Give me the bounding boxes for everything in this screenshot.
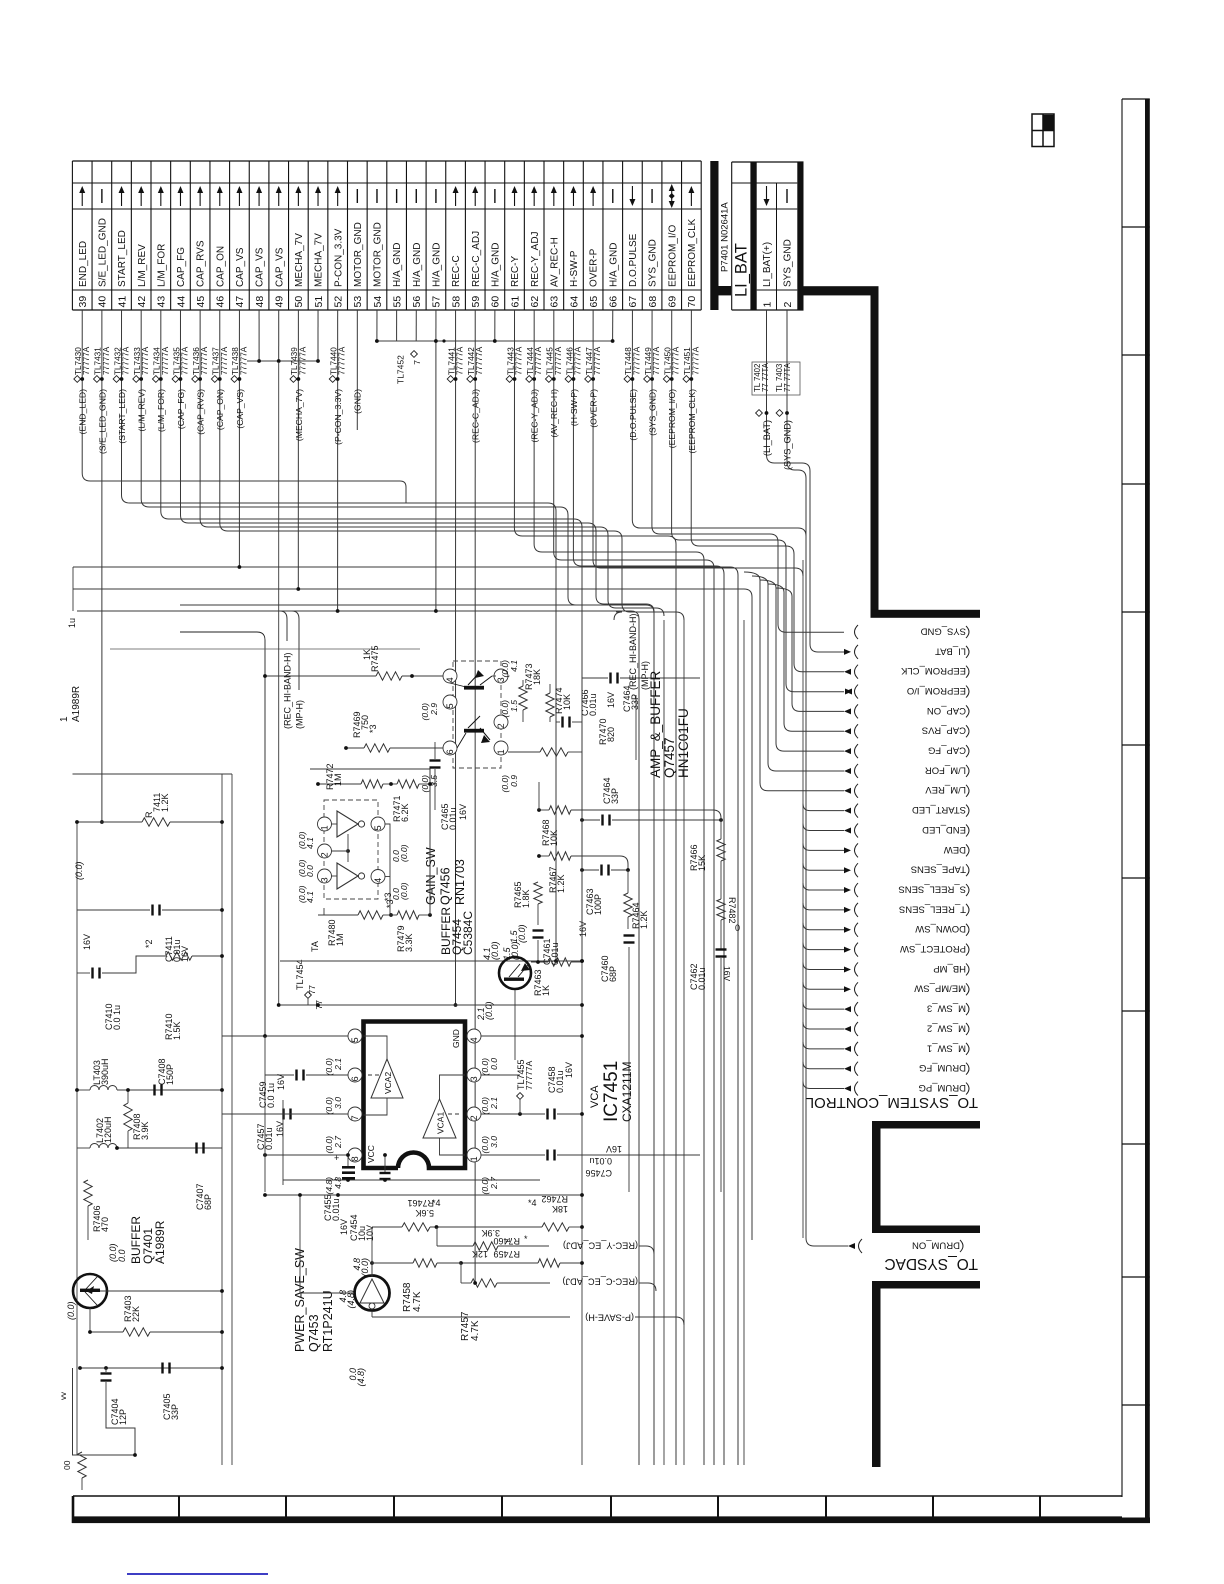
svg-text:120uH: 120uH: [103, 1116, 113, 1143]
op-amp IC7451 body: [364, 1022, 466, 1169]
pin 69 EEPROM_I/O: [667, 184, 679, 308]
svg-text:16V: 16V: [82, 934, 92, 950]
svg-text:7: 7: [350, 1115, 360, 1120]
net EEPROM_CLK (to system control): [844, 665, 969, 679]
net SYS_GND (to system control): [855, 625, 970, 639]
svg-text:L/M_FOR: L/M_FOR: [925, 764, 966, 775]
svg-text:0.0: 0.0: [305, 865, 315, 877]
net T_REEL_SENS (to system control): [803, 903, 969, 917]
svg-text:(SYS_GND): (SYS_GND): [783, 420, 793, 470]
wire H/A_GND pin 57: [435, 310, 437, 611]
svg-text:(MP-H): (MP-H): [640, 661, 650, 690]
wire S/E_LED_GND pin 40: [93, 310, 110, 822]
svg-text:EEPROM_I/O: EEPROM_I/O: [907, 685, 966, 696]
svg-text:51: 51: [313, 296, 325, 308]
pin 47 CAP_VS: [234, 186, 246, 308]
svg-text:(AV_REC-H): (AV_REC-H): [549, 389, 559, 438]
net START_LED (to system control): [803, 804, 969, 818]
capacitor C7411 0.01u 16V: [77, 905, 224, 963]
wire H/A_GND pin 56: [415, 310, 417, 341]
svg-text:50: 50: [293, 296, 305, 308]
svg-text:65: 65: [588, 296, 600, 308]
svg-text:1: 1: [496, 749, 506, 754]
svg-text:2.1: 2.1: [333, 1058, 343, 1071]
wire SYS_GND pin 2: [776, 310, 806, 536]
svg-text:69: 69: [667, 296, 679, 308]
gate block Q7456 dashed outline: [324, 800, 378, 899]
svg-text:(MECHA_7V): (MECHA_7V): [294, 389, 304, 441]
svg-text:68: 68: [647, 296, 659, 308]
svg-text:77777A: 77777A: [161, 346, 170, 375]
svg-text:77777A: 77777A: [691, 346, 700, 375]
resistor R7460 3.9K (mirrored): [437, 1227, 549, 1250]
svg-text:Q7456: Q7456: [439, 867, 453, 905]
svg-text:(L/M_FOR): (L/M_FOR): [156, 389, 166, 432]
wire MECHA_7V pin 51: [317, 310, 319, 361]
capacitor C7465 0.01u 16V: [430, 742, 469, 830]
resistor R7403 22K: [66, 1295, 224, 1336]
svg-text:C5384C: C5384C: [461, 911, 475, 955]
net DOWN_SW (to system control): [803, 923, 969, 937]
svg-text:P-CON_3.3V: P-CON_3.3V: [333, 228, 344, 287]
pin 58 REC-C: [450, 186, 462, 308]
svg-text:1.2K: 1.2K: [160, 793, 170, 812]
svg-text:M_SW_2: M_SW_2: [927, 1022, 966, 1033]
capacitor C7461 0.01u: [533, 929, 561, 965]
svg-text:47: 47: [234, 296, 246, 308]
capacitor C7459 0.01u 16V: [222, 1034, 348, 1192]
svg-text:CXA1211M: CXA1211M: [620, 1062, 634, 1122]
svg-text:A1989R: A1989R: [71, 686, 82, 722]
svg-text:0: 0: [735, 923, 740, 933]
svg-text:R7459: R7459: [493, 1249, 520, 1259]
svg-text:(0.0): (0.0): [360, 1258, 370, 1277]
svg-text:TAPE_SENS: TAPE_SENS: [911, 864, 966, 875]
wire CAP_VS pin 48: [258, 310, 260, 362]
svg-text:L/M_REV: L/M_REV: [137, 244, 148, 287]
svg-text:(P-SAVE-H): (P-SAVE-H): [585, 1313, 634, 1323]
svg-text:END_LED: END_LED: [922, 824, 966, 835]
pin 51 MECHA_7V: [313, 186, 325, 308]
svg-text:57: 57: [431, 296, 443, 308]
transistor Q7457:B: [420, 660, 519, 793]
svg-text:4.1: 4.1: [305, 891, 315, 903]
svg-text:77777A: 77777A: [180, 346, 189, 375]
svg-text:(LI_BAT): (LI_BAT): [762, 420, 772, 456]
svg-text:TL7452: TL7452: [396, 355, 406, 384]
svg-text:77777A: 77777A: [475, 346, 484, 375]
svg-text:L/M_REV: L/M_REV: [925, 784, 966, 795]
svg-text:49: 49: [274, 296, 286, 308]
net (P-SAVE-H): [372, 1313, 684, 1325]
svg-text:390uH: 390uH: [100, 1058, 110, 1085]
svg-text:39: 39: [77, 296, 89, 308]
svg-text:3.9K: 3.9K: [140, 1121, 150, 1140]
wire END_LED pin 39: [74, 310, 406, 503]
svg-text:(0.0): (0.0): [490, 941, 500, 960]
wire START_LED pin 41: [113, 310, 556, 961]
svg-text:10K: 10K: [549, 830, 559, 846]
svg-text:41: 41: [116, 296, 128, 308]
svg-text:DRUM_FG: DRUM_FG: [919, 1062, 966, 1073]
pin 70 EEPROM_CLK: [686, 186, 698, 308]
pin 43 L/M_FOR: [156, 186, 168, 308]
hyperlink underline (blue): [127, 1573, 268, 1575]
svg-text:(REC_HI-BAND-H): (REC_HI-BAND-H): [628, 613, 638, 690]
wire left rail: [73, 774, 233, 1465]
capacitor C7410 0.01u: [77, 934, 166, 1030]
svg-text:GAIN_SW: GAIN_SW: [424, 847, 438, 905]
capacitor C7405 33P: [161, 1363, 180, 1421]
op-amp VCA2 (IC7451): [364, 1036, 404, 1115]
pin 54 MOTOR_GND: [372, 189, 384, 308]
inverter U:A (Q7456): [297, 811, 390, 915]
resistor R7458 4.7K: [372, 1259, 461, 1312]
svg-text:L/M_FOR: L/M_FOR: [156, 244, 167, 287]
svg-text:*2: *2: [144, 939, 154, 948]
pin 2 IC7451: [467, 1107, 545, 1153]
svg-text:REC-Y: REC-Y: [510, 256, 521, 287]
wire VCC rail y1185: [283, 1100, 540, 1185]
svg-text:H-SW-P: H-SW-P: [569, 250, 580, 287]
svg-text:6: 6: [445, 749, 455, 754]
svg-text:2: 2: [496, 723, 506, 728]
svg-text:77777A: 77777A: [573, 346, 582, 375]
svg-text:0.01u: 0.01u: [264, 1127, 274, 1150]
sheet marker icon (checkered): [1032, 114, 1054, 147]
pin 53 MOTOR_GND: [352, 189, 364, 308]
svg-text:(REC_HI-BAND-H): (REC_HI-BAND-H): [283, 652, 293, 729]
svg-text:MOTOR_GND: MOTOR_GND: [353, 222, 364, 287]
connector title LI_BAT: [733, 243, 751, 297]
svg-text:33P: 33P: [170, 1404, 180, 1420]
svg-text:R7462: R7462: [541, 1194, 568, 1204]
svg-text:1u: 1u: [67, 618, 77, 628]
svg-text:77777A: 77777A: [652, 346, 661, 375]
wire CAP_VS pin 49: [278, 310, 280, 362]
svg-text:2.7: 2.7: [489, 1177, 499, 1190]
svg-text:77777A: 77777A: [456, 346, 465, 375]
svg-text:SYS_GND: SYS_GND: [648, 239, 659, 287]
capacitor C7463 100P: [580, 865, 630, 916]
net (REC-C_EC_ADJ): [473, 1277, 656, 1291]
svg-text:ME/MP_SW: ME/MP_SW: [914, 983, 966, 994]
svg-text:TL7454: TL7454: [295, 959, 305, 990]
pin 56 H/A_GND: [411, 189, 423, 308]
junction H/A_GND tie line pins 54-66: [375, 339, 614, 384]
pin 49 CAP_VS: [274, 186, 286, 308]
svg-text:OVER-P: OVER-P: [589, 248, 600, 287]
pin 1 LI_BAT(+): [761, 186, 773, 308]
wire rail y961: [280, 959, 584, 963]
svg-text:62: 62: [529, 296, 541, 308]
svg-text:(REC-Y_EC_ADJ): (REC-Y_EC_ADJ): [563, 1241, 638, 1251]
svg-text:IC7451: IC7451: [601, 1061, 622, 1122]
svg-text:D.O.PULSE: D.O.PULSE: [628, 233, 639, 287]
svg-text:4: 4: [469, 1037, 479, 1042]
svg-text:(MP-H): (MP-H): [295, 700, 305, 729]
pin 59 REC-C_ADJ: [470, 186, 482, 308]
svg-text:1: 1: [761, 302, 773, 308]
wire long vertical x582: [580, 620, 584, 1465]
net DRUM_PG (to system control): [803, 1082, 969, 1096]
svg-text:1.5K: 1.5K: [172, 1021, 182, 1040]
resistor R7472 1M: [316, 763, 383, 790]
svg-text:77777A: 77777A: [82, 346, 91, 375]
inductor LT403 390uH: [75, 1058, 224, 1091]
test point TL7455: [516, 1059, 534, 1114]
svg-text:46: 46: [215, 296, 227, 308]
transistor Q7453: [298, 1193, 389, 1386]
svg-text:77777A: 77777A: [141, 346, 150, 375]
svg-text:77777A: 77777A: [534, 346, 543, 375]
svg-text:(L/M_REV): (L/M_REV): [137, 389, 147, 432]
net LI_BAT (to system control): [844, 645, 969, 659]
svg-text:77777A: 77777A: [102, 346, 111, 375]
svg-text:(REC-Y_ADJ): (REC-Y_ADJ): [530, 389, 540, 443]
svg-text:R7461: R7461: [407, 1198, 434, 1208]
svg-text:A1989R: A1989R: [153, 1220, 167, 1264]
svg-text:54: 54: [372, 296, 384, 308]
net M_SW_2 (to system control): [803, 1022, 969, 1036]
svg-text:1K: 1K: [541, 985, 551, 996]
svg-text:77 77TA: 77 77TA: [761, 362, 770, 392]
wire MOTOR_GND pin 53: [353, 310, 363, 430]
svg-text:(0.0): (0.0): [74, 861, 84, 880]
svg-text:63: 63: [549, 296, 561, 308]
svg-text:Q7453: Q7453: [307, 1314, 321, 1352]
svg-text:77777A: 77777A: [632, 346, 641, 375]
pin 7 IC7451: [300, 1107, 362, 1153]
resistor R7411 1.2K: [74, 793, 224, 880]
wire rail y1192: [263, 1193, 584, 1197]
svg-text:DOWN_SW: DOWN_SW: [915, 923, 966, 934]
svg-text:(4.8): (4.8): [356, 1368, 366, 1387]
svg-text:12K: 12K: [472, 1249, 488, 1259]
net M_SW_3 (to system control): [803, 1002, 969, 1016]
svg-text:16V: 16V: [339, 1219, 349, 1235]
svg-text:77777A: 77777A: [122, 346, 131, 375]
net (REC-Y_EC_ADJ): [563, 1241, 654, 1254]
svg-text:MECHA_7V: MECHA_7V: [314, 233, 325, 287]
svg-text:4: 4: [373, 878, 383, 883]
svg-text:TO_SYSDAC: TO_SYSDAC: [884, 1255, 978, 1272]
svg-text:16V: 16V: [276, 1074, 286, 1090]
pin 41 START_LED: [116, 186, 128, 308]
svg-text:3.0: 3.0: [489, 1136, 499, 1148]
svg-text:CAP_FG: CAP_FG: [176, 247, 187, 287]
svg-text:0.01u: 0.01u: [448, 807, 458, 830]
svg-text:REC-Y_ADJ: REC-Y_ADJ: [530, 231, 541, 287]
net L/M_FOR (to system control): [752, 576, 969, 778]
svg-text:(0.0): (0.0): [399, 882, 409, 900]
svg-text:MECHA_7V: MECHA_7V: [294, 233, 305, 287]
label PWER_SAVE_SW Q7453 RT1P241U: [293, 1248, 335, 1352]
svg-text:GND: GND: [451, 1029, 461, 1048]
svg-text:1: 1: [59, 716, 70, 722]
svg-text:(CAP_FG): (CAP_FG): [176, 389, 186, 429]
svg-text:CAP_VS: CAP_VS: [235, 247, 246, 287]
net END_LED (to system control): [803, 824, 969, 838]
svg-text:59: 59: [470, 296, 482, 308]
svg-text:2.7: 2.7: [333, 1136, 343, 1149]
label A1989R (partial): [59, 618, 82, 722]
svg-text:HN1C01FU: HN1C01FU: [676, 708, 691, 778]
net CAP_FG (to system control): [760, 580, 969, 758]
svg-text:START_LED: START_LED: [912, 804, 966, 815]
net DEW (to system control): [803, 843, 969, 857]
svg-text:SYS_GND: SYS_GND: [920, 625, 966, 636]
inverter U:C (Q7456): [297, 863, 390, 903]
wire REC-C pin 58: [447, 310, 464, 1005]
svg-text:77777A: 77777A: [200, 346, 209, 375]
svg-text:33P: 33P: [610, 788, 620, 804]
svg-text:*4: *4: [432, 1198, 441, 1208]
net (REC_HI-BAND-H) left instance: [280, 611, 305, 729]
svg-text:3: 3: [320, 877, 330, 882]
net (REC_HI-BAND-H) (MP-H): [628, 613, 650, 760]
svg-text:1.2K: 1.2K: [556, 874, 566, 893]
wire REC-Y pin 61: [506, 310, 676, 1465]
svg-text:470: 470: [100, 1217, 110, 1232]
svg-text:77777A: 77777A: [672, 346, 681, 375]
svg-text:1: 1: [469, 1156, 479, 1161]
resistor R7469 750: [344, 711, 443, 752]
svg-text:8: 8: [350, 1156, 360, 1161]
pin 65 OVER-P: [588, 186, 600, 308]
svg-text:40: 40: [97, 296, 109, 308]
svg-text:LI_BAT: LI_BAT: [935, 645, 966, 656]
svg-text:10K: 10K: [562, 694, 572, 710]
svg-text:(EEPROM_I/O): (EEPROM_I/O): [667, 389, 677, 448]
label BUFFER Q7454 C5384C: [439, 907, 520, 1021]
svg-text:VCC: VCC: [366, 1145, 376, 1163]
capacitor C7456 0.01u: [546, 1144, 700, 1178]
svg-text:R7482: R7482: [727, 897, 737, 924]
svg-text:(END_LED): (END_LED): [78, 389, 88, 435]
svg-text:4.7K: 4.7K: [470, 1320, 481, 1341]
pin 3 IC7451: [467, 1068, 520, 1114]
svg-text:00: 00: [62, 1460, 72, 1470]
svg-text:M_SW_1: M_SW_1: [927, 1042, 966, 1053]
svg-text:*3: *3: [385, 899, 395, 908]
svg-text:48: 48: [254, 296, 266, 308]
capacitor C7458 0.01u 16V: [546, 1062, 584, 1120]
svg-text:16V: 16V: [275, 1121, 285, 1137]
svg-text:77777A: 77777A: [220, 346, 229, 375]
label TO_SYSTEM_CONTROL: [806, 1094, 978, 1111]
pin 5 IC7451: [324, 1029, 362, 1075]
wire P-CON_3.3V pin 52: [329, 310, 346, 611]
svg-text:1M: 1M: [333, 773, 343, 786]
label VCA IC7451 CXA1211M: [589, 1061, 634, 1122]
svg-text:H/A_GND: H/A_GND: [432, 243, 443, 287]
svg-text:0.01u: 0.01u: [589, 1156, 612, 1166]
svg-text:100P: 100P: [593, 894, 603, 915]
svg-text:(GND): (GND): [353, 389, 363, 414]
svg-text:77777A: 77777A: [524, 1060, 534, 1090]
svg-text:18K: 18K: [552, 1204, 568, 1214]
svg-text:15K: 15K: [697, 855, 707, 871]
svg-text:(P-CON_3.3V): (P-CON_3.3V): [333, 389, 343, 445]
connector P7401 body bar: [710, 161, 731, 310]
svg-text:18K: 18K: [532, 669, 542, 685]
resistor R7463 1K: [531, 958, 582, 996]
transistor Q7401 BUFFER A1989R: [73, 1216, 224, 1308]
svg-text:12P: 12P: [118, 1409, 128, 1425]
svg-text:60: 60: [490, 296, 502, 308]
wire EEPROM_I/O pin 69: [663, 310, 844, 692]
svg-text:0.01u: 0.01u: [697, 967, 707, 990]
pin 62 REC-Y_ADJ: [529, 186, 541, 308]
wire REC-Y_ADJ pin 62: [526, 310, 704, 1465]
svg-text:5: 5: [373, 825, 383, 830]
svg-text:0.01u: 0.01u: [588, 693, 598, 716]
svg-text:RT1P241U: RT1P241U: [321, 1290, 335, 1352]
svg-text:END_LED: END_LED: [78, 241, 89, 287]
pin 66 H/A_GND: [608, 189, 620, 308]
svg-text:Q7457: Q7457: [662, 737, 677, 778]
svg-text:16V: 16V: [458, 804, 468, 820]
svg-text:HB_MP: HB_MP: [933, 963, 966, 974]
svg-text:45: 45: [195, 296, 207, 308]
svg-text:(0.0): (0.0): [484, 1001, 494, 1020]
svg-text:4.1: 4.1: [509, 660, 519, 672]
capacitor C7464 33P: [582, 673, 700, 713]
svg-text:(S/E_LED_GND): (S/E_LED_GND): [97, 389, 107, 454]
svg-text:55: 55: [391, 296, 403, 308]
svg-text:(D.O.PULSE): (D.O.PULSE): [628, 389, 638, 441]
net L/M_REV (to system control): [744, 572, 969, 798]
wire CAP_VS pin 47: [231, 310, 248, 567]
bus bracket to sysdac: [872, 1281, 980, 1467]
pin 6 IC7451: [306, 1068, 362, 1114]
pin 44 CAP_FG: [175, 186, 187, 308]
svg-text:⊿: ⊿: [505, 1237, 511, 1244]
svg-text:AV_REC-H: AV_REC-H: [549, 237, 560, 287]
pin 2 SYS_GND: [782, 189, 794, 308]
transistor Q7455: [499, 957, 531, 1060]
capacitor C7407 68P: [195, 1143, 213, 1211]
wire MOTOR_GND pin 54: [376, 310, 378, 341]
power bus SYS_GND thick trace: [804, 286, 981, 618]
svg-text:M_SW_3: M_SW_3: [927, 1003, 966, 1014]
pin 4 IC7451 GND: [451, 1029, 584, 1075]
svg-text:SYS_GND: SYS_GND: [783, 239, 794, 287]
wire CAP_FG pin 44: [172, 310, 654, 612]
net CAP_RVS (to system control): [768, 584, 969, 738]
wire REC-C_ADJ pin 59: [467, 310, 484, 1282]
svg-text:43: 43: [156, 296, 168, 308]
svg-text:DRUM_PG: DRUM_PG: [918, 1082, 966, 1093]
resistor R7471 6.2K: [383, 780, 435, 822]
connector P7401 table grid: [72, 161, 701, 310]
resistor R7462 18K (mirrored): [541, 1194, 583, 1231]
wire SYS_GND pin 68: [644, 310, 844, 632]
wire CAP_ON pin 46: [211, 310, 684, 620]
svg-text:3.3K: 3.3K: [404, 933, 414, 952]
svg-text:2: 2: [320, 852, 330, 857]
svg-text:16V: 16V: [578, 921, 588, 937]
svg-text:+: +: [334, 1153, 339, 1163]
svg-text:70: 70: [686, 296, 698, 308]
svg-text:66: 66: [608, 296, 620, 308]
net TAPE_SENS (to system control): [803, 863, 969, 877]
resistor R74xx (bottom left): [62, 1452, 137, 1490]
svg-text:68P: 68P: [203, 1194, 213, 1210]
svg-text:P7401 N02641A: P7401 N02641A: [720, 202, 731, 272]
svg-text:52: 52: [332, 296, 344, 308]
